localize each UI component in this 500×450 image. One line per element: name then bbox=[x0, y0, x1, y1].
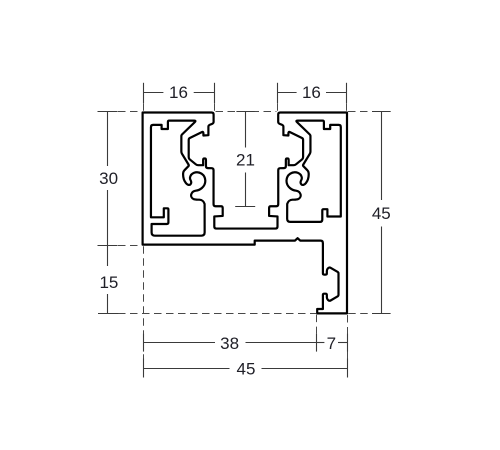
right chamber cavity with retaining hook and screw-boss squiggle bbox=[286, 121, 340, 222]
dimension 15 (leg height) with ticks bbox=[98, 245, 118, 313]
dimension 7 (leg width) with ticks bbox=[316, 334, 347, 352]
dimension 21 (channel depth) with ticks bbox=[235, 111, 255, 206]
dimension 16 (right channel half) with ticks bbox=[277, 83, 347, 103]
extension line top (y=111.3, right) bbox=[348, 111, 391, 113]
svg-text:7: 7 bbox=[327, 334, 336, 353]
extension line channel right lip (x=277.4) bbox=[277, 103, 279, 112]
extension line top (y=111.3, left) bbox=[118, 111, 142, 113]
profile outer contour: top edges, central channel with screw ports, right edge, bottom leg with snap hooks bbox=[143, 113, 347, 314]
svg-text:45: 45 bbox=[372, 204, 391, 223]
dimension 45 (overall width, bottom) with ticks bbox=[144, 359, 348, 378]
extension line right edge (x=347, below) bbox=[347, 315, 349, 359]
svg-text:16: 16 bbox=[302, 83, 321, 102]
svg-text:21: 21 bbox=[236, 151, 255, 170]
svg-text:16: 16 bbox=[169, 83, 188, 102]
extension line channel left lip (x=214.6) bbox=[214, 103, 216, 112]
extension line right edge (x=347, above) bbox=[346, 103, 348, 112]
svg-text:15: 15 bbox=[99, 273, 118, 292]
extension line left edge (x=143.5, above profile) bbox=[143, 103, 145, 112]
extension line left edge (x=143.5, below profile) bbox=[143, 246, 145, 377]
svg-text:38: 38 bbox=[220, 334, 239, 353]
dimension 30 (upper body height) with ticks bbox=[98, 111, 118, 245]
svg-text:45: 45 bbox=[237, 359, 256, 378]
extension line y=245.3 (left) bbox=[118, 245, 142, 247]
extension line y=313.4 (left of leg) bbox=[118, 313, 316, 315]
extension line leg left corner (x=316.3) bbox=[316, 315, 318, 334]
extension line top (y=111.3, centre) bbox=[216, 111, 277, 113]
dimension 38 (bottom left width) with ticks bbox=[144, 334, 317, 352]
dimension 45 (overall height, right) with ticks bbox=[372, 111, 391, 313]
left chamber cavity with retaining hook and screw-boss squiggle bbox=[151, 121, 205, 236]
extension line y=313.5 (right of leg) bbox=[348, 313, 372, 315]
dimension 16 (left channel half) with ticks bbox=[143, 83, 214, 103]
svg-text:30: 30 bbox=[99, 169, 118, 188]
